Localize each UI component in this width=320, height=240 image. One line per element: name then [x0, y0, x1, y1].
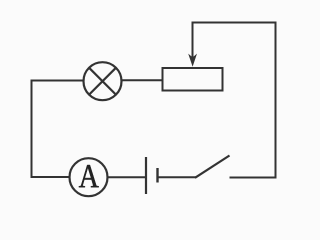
wire: bottom-left horizontal — [31, 176, 71, 178]
wire: top-left horizontal to lamp — [31, 80, 84, 82]
battery B1 long plate (positive) — [145, 157, 147, 194]
wire: lamp to rheostat — [122, 79, 163, 81]
wire: left vertical — [31, 81, 33, 178]
lamp L1 — [84, 62, 122, 100]
ammeter A1 — [70, 158, 108, 196]
wire: bottom-right horizontal to switch contact — [230, 177, 277, 179]
wire: ammeter to battery — [107, 176, 146, 178]
wire: top horizontal — [192, 22, 277, 24]
battery B1 short plate (negative) — [156, 168, 158, 183]
switch S1 blade — [195, 156, 230, 178]
wire: right vertical — [275, 22, 277, 179]
rheostat wiper arrow — [188, 22, 197, 67]
wire: battery to switch pivot — [158, 176, 197, 178]
rheostat R1 body — [163, 68, 223, 91]
